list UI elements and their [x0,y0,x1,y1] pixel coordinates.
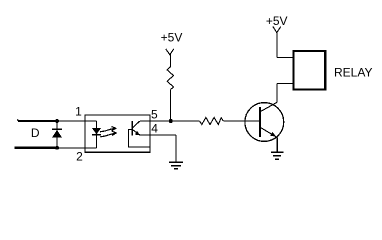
svg-text:2: 2 [76,150,83,164]
svg-text:1: 1 [75,105,82,119]
svg-text:D: D [31,126,40,140]
svg-text:5: 5 [151,107,158,121]
svg-text:RELAY: RELAY [334,66,372,80]
svg-text:4: 4 [151,122,158,136]
svg-text:+5V: +5V [266,14,288,28]
svg-text:+5V: +5V [161,31,183,45]
